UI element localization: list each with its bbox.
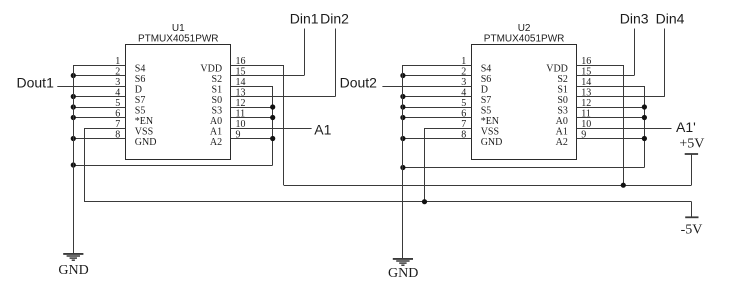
junction VSS rail / U2 VSS drop: [422, 199, 427, 204]
svg-text:-5V: -5V: [681, 222, 703, 237]
junction U1 ground tie / pin 11: [270, 115, 275, 120]
svg-text:GND: GND: [135, 137, 157, 148]
svg-text:5: 5: [461, 98, 466, 109]
svg-text:9: 9: [581, 129, 586, 140]
IC U1 PTMUX4051PWR body: [126, 45, 231, 160]
svg-text:U2: U2: [518, 23, 531, 34]
wire U1 pin 13 (S0) stub: [231, 96, 336, 98]
svg-text:14: 14: [236, 77, 246, 88]
svg-text:2: 2: [115, 66, 120, 77]
junction U1 GND bus / pin 5: [71, 104, 76, 109]
wire U2 pin 8 to GND bus: [403, 138, 472, 140]
wire U1 pin 4 to GND bus: [73, 96, 126, 98]
svg-text:11: 11: [581, 108, 591, 119]
wire Din2 vertical: [335, 29, 337, 97]
wire U2 pin 1 to GND bus: [403, 65, 472, 67]
svg-text:+5V: +5V: [679, 137, 704, 152]
svg-text:7: 7: [115, 119, 120, 130]
wire +5V VDD rail horizontal: [284, 185, 692, 187]
ground symbol GND2: [393, 259, 413, 265]
wire U2 GND bus vertical: [402, 65, 404, 259]
junction U2 GND bus / pin 8: [400, 136, 405, 141]
svg-text:S5: S5: [481, 105, 492, 116]
svg-text:VDD: VDD: [546, 63, 568, 74]
svg-text:8: 8: [115, 129, 120, 140]
svg-text:8: 8: [461, 129, 466, 140]
svg-text:GND: GND: [481, 137, 503, 148]
svg-text:S0: S0: [212, 95, 223, 106]
svg-text:9: 9: [236, 129, 241, 140]
junction U1 GND bus / ground tie: [71, 162, 76, 167]
wire -5V VSS rail horizontal: [84, 201, 691, 203]
junction U1 GND bus / pin 6: [71, 115, 76, 120]
wire U1 pin 15 (S2) stub: [231, 75, 304, 77]
svg-text:A2: A2: [210, 137, 222, 148]
svg-text:3: 3: [115, 77, 120, 88]
svg-text:VSS: VSS: [481, 126, 499, 137]
wire U2 pin 5 to GND bus: [403, 107, 472, 109]
junction U1 GND bus / pin 4: [71, 94, 76, 99]
wire U2 pin 7 VSS horizontal segment: [425, 128, 472, 130]
svg-text:16: 16: [581, 56, 591, 67]
svg-text:D: D: [135, 84, 142, 95]
svg-text:Din1: Din1: [290, 11, 319, 27]
junction U2 GND bus / ground tie: [400, 165, 405, 170]
svg-text:D: D: [481, 84, 488, 95]
junction U2 ground tie / pin 9: [642, 136, 647, 141]
wire U2 pin 11 (A0) stub: [577, 117, 645, 119]
wire Din3 vertical: [634, 29, 636, 76]
svg-text:3: 3: [461, 77, 466, 88]
wire U2 VDD vertical drop to +5V rail: [623, 65, 625, 185]
svg-text:13: 13: [236, 87, 246, 98]
svg-text:GND: GND: [388, 266, 418, 281]
junction U2 GND bus / pin 4: [400, 94, 405, 99]
svg-text:S3: S3: [557, 105, 568, 116]
wire Din4 vertical: [664, 29, 666, 97]
ground symbol GND1: [63, 254, 83, 260]
junction U2 ground tie / pin 11: [642, 115, 647, 120]
wire U1 pin 7 VSS horizontal segment: [84, 128, 126, 130]
svg-text:S2: S2: [557, 74, 568, 85]
svg-text:12: 12: [236, 98, 246, 109]
wire U2 pin 2 to GND bus: [403, 75, 472, 77]
wire Din1 vertical: [304, 29, 306, 76]
svg-text:A1: A1: [556, 126, 568, 137]
svg-text:VDD: VDD: [200, 63, 222, 74]
wire U1 pin 9 (A2) stub: [231, 138, 273, 140]
svg-text:Din2: Din2: [320, 11, 349, 27]
wire U2 pin 9 (A2) stub: [577, 138, 645, 140]
wire U1 pin 1 to GND bus: [73, 65, 126, 67]
svg-text:6: 6: [115, 108, 120, 119]
svg-text:6: 6: [461, 108, 466, 119]
svg-text:10: 10: [581, 119, 591, 130]
svg-text:16: 16: [236, 56, 246, 67]
svg-text:Dout1: Dout1: [17, 75, 55, 91]
wire U1 VDD vertical drop to +5V rail: [283, 65, 285, 185]
svg-text:1: 1: [115, 56, 120, 67]
svg-text:S7: S7: [481, 95, 492, 106]
junction U2 ground tie / pin 12: [642, 104, 647, 109]
svg-text:PTMUX4051PWR: PTMUX4051PWR: [138, 34, 219, 45]
junction VDD rail / U2 VDD drop: [621, 183, 626, 188]
svg-text:A0: A0: [210, 116, 222, 127]
junction U1 ground tie / pin 9: [270, 136, 275, 141]
svg-text:A1': A1': [676, 119, 696, 135]
svg-text:S2: S2: [212, 74, 223, 85]
svg-text:A1: A1: [314, 121, 331, 137]
svg-text:S3: S3: [212, 105, 223, 116]
junction U1 GND bus / pin 8: [71, 136, 76, 141]
svg-text:VSS: VSS: [135, 126, 153, 137]
svg-text:S7: S7: [135, 95, 146, 106]
wire U2 pin 6 to GND bus: [403, 117, 472, 119]
svg-text:1: 1: [461, 56, 466, 67]
svg-text:14: 14: [581, 77, 591, 88]
svg-text:15: 15: [236, 66, 246, 77]
wire U2 pin 15 (S2) stub: [577, 75, 635, 77]
svg-text:*EN: *EN: [481, 116, 499, 127]
svg-text:15: 15: [581, 66, 591, 77]
wire U2 pin 14 (S1) stub: [577, 86, 645, 88]
svg-text:A2: A2: [556, 137, 568, 148]
svg-text:12: 12: [581, 98, 591, 109]
svg-text:S4: S4: [135, 63, 146, 74]
wire U1 pin 6 to GND bus: [73, 117, 126, 119]
svg-text:S5: S5: [135, 105, 146, 116]
svg-text:7: 7: [461, 119, 466, 130]
svg-text:A0: A0: [556, 116, 568, 127]
wire Dout net to U1 pin 3 (crosses GND bus, no junction): [57, 86, 126, 88]
wire U2 pin 16 (VDD) stub: [577, 65, 624, 67]
svg-text:4: 4: [461, 87, 466, 98]
svg-text:Din3: Din3: [620, 11, 649, 27]
wire U2 pin 4 to GND bus: [403, 96, 472, 98]
+5V supply symbol: [685, 154, 698, 185]
svg-text:S4: S4: [481, 63, 492, 74]
wire U1 pin 10 (A1) stub: [231, 128, 312, 130]
wire U1 pin 8 to GND bus: [73, 138, 126, 140]
wire U2 pin 12 (S3) stub: [577, 107, 645, 109]
wire U1 pin 16 (VDD) stub: [231, 65, 284, 67]
junction U1 GND bus / pin 2: [71, 73, 76, 78]
svg-text:Din4: Din4: [656, 11, 685, 27]
wire U1 ground tie horizontal to GND bus: [73, 165, 272, 167]
junction U1 ground tie / pin 12: [270, 104, 275, 109]
wire U1 S1/S3/A0/A2 ground tie vertical: [272, 86, 274, 165]
svg-text:S0: S0: [557, 95, 568, 106]
svg-text:GND: GND: [58, 263, 88, 278]
junction U2 GND bus / pin 5: [400, 104, 405, 109]
wire U1 pin 5 to GND bus: [73, 107, 126, 109]
IC U2 PTMUX4051PWR body: [472, 45, 577, 160]
svg-text:5: 5: [115, 98, 120, 109]
wire U1 pin 12 (S3) stub: [231, 107, 273, 109]
svg-text:Dout2: Dout2: [340, 75, 378, 91]
wire U1 VSS vertical drop to -5V rail: [84, 128, 86, 202]
svg-text:S1: S1: [212, 84, 223, 95]
svg-text:PTMUX4051PWR: PTMUX4051PWR: [484, 34, 565, 45]
svg-text:13: 13: [581, 87, 591, 98]
svg-text:4: 4: [115, 87, 120, 98]
junction U2 GND bus / pin 6: [400, 115, 405, 120]
wire U1 pin 2 to GND bus: [73, 75, 126, 77]
junction U2 GND bus / pin 2: [400, 73, 405, 78]
-5V supply symbol: [685, 202, 698, 218]
wire U2 pin 10 (A1) stub: [577, 128, 672, 130]
svg-text:S1: S1: [557, 84, 568, 95]
wire U1 pin 11 (A0) stub: [231, 117, 273, 119]
svg-text:10: 10: [236, 119, 246, 130]
wire U2 pin 13 (S0) stub: [577, 96, 665, 98]
svg-text:S6: S6: [481, 74, 492, 85]
svg-text:A1: A1: [210, 126, 222, 137]
svg-text:*EN: *EN: [135, 116, 153, 127]
wire U1 pin 14 (S1) stub: [231, 86, 273, 88]
wire U2 VSS vertical drop to -5V rail: [424, 128, 426, 202]
svg-text:U1: U1: [172, 23, 185, 34]
svg-text:S6: S6: [135, 74, 146, 85]
svg-text:11: 11: [236, 108, 246, 119]
wire U2 S1/S3/A0/A2 ground tie vertical: [644, 86, 646, 168]
svg-text:2: 2: [461, 66, 466, 77]
wire Dout net to U2 pin 3 (crosses GND bus, no junction): [382, 86, 471, 88]
wire U2 ground tie horizontal to GND bus: [403, 167, 645, 169]
wire U1 GND bus vertical: [73, 65, 75, 254]
